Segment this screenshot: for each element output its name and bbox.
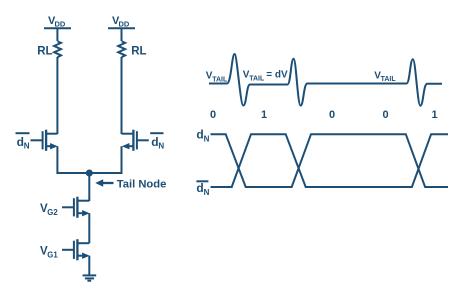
transistor M4 cascode (gate VG1)	[62, 239, 90, 260]
tail node arrow	[95, 179, 113, 187]
label V_TAIL = dV	[243, 70, 288, 83]
svg-text:G2: G2	[47, 208, 58, 217]
wire R2 to M2 drain	[121, 57, 123, 134]
wire tail node down to M3 drain	[88, 173, 90, 201]
ground	[83, 275, 97, 280]
svg-text:N: N	[24, 142, 30, 151]
svg-text:TAIL: TAIL	[249, 75, 265, 82]
label VG1	[40, 246, 58, 260]
wire M4 source to ground	[88, 256, 90, 275]
svg-text:DD: DD	[119, 20, 130, 29]
svg-text:DD: DD	[55, 20, 66, 29]
wire VDD2 to R2	[121, 28, 123, 41]
svg-text:RL: RL	[131, 46, 146, 58]
svg-text:N: N	[204, 134, 210, 143]
svg-text:N: N	[158, 142, 164, 151]
svg-text:Tail Node: Tail Node	[117, 178, 167, 190]
svg-text:TAIL: TAIL	[381, 76, 397, 83]
waveform dN-bar trace	[211, 134, 449, 187]
transistor M3 cascode (gate VG2)	[62, 197, 90, 218]
power rail VDD left	[44, 15, 71, 29]
label dN-bar (M2 gate)	[150, 133, 164, 151]
svg-text:0: 0	[329, 109, 335, 121]
waveform dN trace	[211, 134, 449, 187]
svg-text:1: 1	[431, 109, 437, 121]
resistor R2 (RL right)	[118, 41, 125, 57]
wire M3 source to M4 drain	[88, 213, 90, 243]
tail node junction dot	[86, 170, 93, 177]
wire M1 source to tail node	[57, 146, 89, 173]
label V_TAIL (left)	[206, 71, 228, 84]
svg-text:0: 0	[382, 109, 388, 121]
svg-text:N: N	[204, 188, 210, 197]
V_TAIL waveform with glitches	[209, 54, 442, 106]
power rail VDD right	[108, 15, 135, 29]
transistor M1 (diff pair left)	[31, 130, 58, 151]
wire R1 to M1 drain	[56, 57, 58, 134]
label VG2	[40, 203, 58, 217]
svg-text:0: 0	[210, 109, 216, 121]
label dN-bar (waveform bottom)	[196, 181, 209, 197]
label V_TAIL (right)	[374, 70, 396, 83]
svg-text:RL: RL	[37, 46, 52, 58]
wire VDD1 to R1	[56, 28, 58, 41]
svg-text:1: 1	[261, 109, 267, 121]
svg-text:TAIL: TAIL	[212, 76, 228, 83]
label dN (waveform top)	[196, 127, 209, 143]
wire M2 source to tail node	[89, 146, 121, 173]
svg-text:G1: G1	[47, 250, 58, 259]
label dN-bar (M1 gate)	[16, 133, 30, 151]
transistor M2 (diff pair right)	[122, 130, 149, 151]
svg-text:= dV: = dV	[266, 70, 288, 81]
resistor R1 (RL left)	[54, 41, 61, 57]
